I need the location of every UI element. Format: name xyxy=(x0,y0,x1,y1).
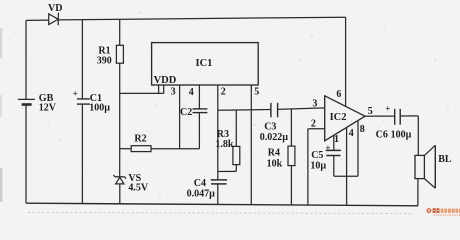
svg-text:IC1: IC1 xyxy=(196,58,213,69)
svg-text:390: 390 xyxy=(97,55,112,66)
svg-text:1.8k: 1.8k xyxy=(215,139,234,150)
svg-text:100µ: 100µ xyxy=(391,129,412,140)
svg-text:BL: BL xyxy=(438,154,452,165)
svg-text:1: 1 xyxy=(334,134,339,145)
svg-text:8: 8 xyxy=(360,124,365,135)
svg-text:VD: VD xyxy=(48,3,62,14)
svg-text:10k: 10k xyxy=(267,158,283,169)
svg-text:IC2: IC2 xyxy=(330,112,347,123)
svg-text:3: 3 xyxy=(171,87,176,98)
svg-text:4.5V: 4.5V xyxy=(128,183,149,194)
svg-text:R2: R2 xyxy=(134,133,146,144)
svg-text:+: + xyxy=(325,143,330,153)
svg-text:0.047µ: 0.047µ xyxy=(187,189,216,200)
svg-text:12V: 12V xyxy=(39,103,57,114)
svg-text:2: 2 xyxy=(221,86,226,97)
svg-text:5: 5 xyxy=(368,106,373,117)
svg-text:100µ: 100µ xyxy=(89,103,110,114)
svg-text:4: 4 xyxy=(349,128,354,139)
svg-text:C2: C2 xyxy=(180,107,192,118)
svg-text:3: 3 xyxy=(312,99,317,110)
svg-text:R4: R4 xyxy=(268,148,280,159)
svg-text:6: 6 xyxy=(336,89,341,100)
svg-text:0.022µ: 0.022µ xyxy=(260,132,289,143)
svg-text:+: + xyxy=(385,104,390,114)
svg-text:2: 2 xyxy=(311,119,316,130)
svg-text:C5: C5 xyxy=(311,150,323,161)
svg-text:10µ: 10µ xyxy=(310,161,326,172)
svg-text:+: + xyxy=(73,88,78,98)
svg-text:C6: C6 xyxy=(376,129,388,140)
svg-text:4: 4 xyxy=(189,87,194,98)
svg-text:VDD: VDD xyxy=(154,75,177,86)
svg-text:5: 5 xyxy=(254,86,259,97)
svg-text:C3: C3 xyxy=(264,122,276,133)
